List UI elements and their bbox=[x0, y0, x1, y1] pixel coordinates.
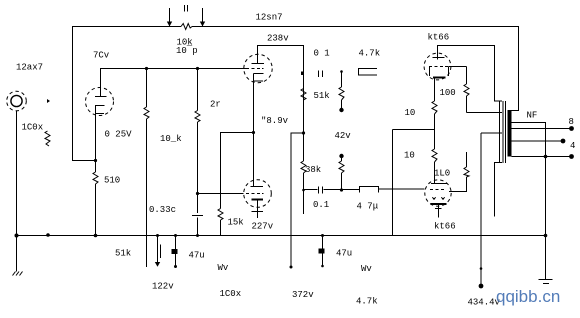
svg-text:10_k: 10_k bbox=[160, 134, 182, 144]
svg-text:227v: 227v bbox=[252, 222, 274, 232]
svg-text:47u: 47u bbox=[336, 249, 352, 259]
svg-text:10¯p: 10¯p bbox=[176, 45, 198, 56]
svg-text:NF: NF bbox=[527, 111, 538, 121]
svg-text:4.7k: 4.7k bbox=[356, 297, 378, 307]
svg-text:kt66: kt66 bbox=[428, 33, 450, 43]
svg-text:kt66: kt66 bbox=[434, 222, 456, 232]
svg-text:51k: 51k bbox=[115, 249, 131, 259]
svg-text:4 7μ: 4 7μ bbox=[357, 202, 379, 212]
svg-text:7Cv: 7Cv bbox=[93, 51, 110, 61]
svg-text:51k: 51k bbox=[314, 91, 330, 101]
svg-text:2r: 2r bbox=[210, 100, 221, 110]
svg-text:4: 4 bbox=[570, 141, 575, 151]
svg-text:1L0: 1L0 bbox=[434, 169, 450, 179]
svg-text:12ax7: 12ax7 bbox=[16, 63, 43, 73]
svg-text:1C0x: 1C0x bbox=[22, 123, 44, 133]
svg-text:0.1: 0.1 bbox=[313, 200, 329, 210]
svg-text:0 1: 0 1 bbox=[314, 49, 330, 59]
svg-text:"8.9v: "8.9v bbox=[261, 116, 289, 126]
svg-text:510: 510 bbox=[104, 176, 120, 186]
svg-text:0.33c: 0.33c bbox=[149, 205, 176, 215]
svg-text:372v: 372v bbox=[292, 290, 314, 300]
svg-text:10: 10 bbox=[405, 108, 416, 118]
svg-text:15k: 15k bbox=[228, 218, 244, 228]
svg-text:0 25V: 0 25V bbox=[105, 130, 133, 140]
svg-text:12sn7: 12sn7 bbox=[256, 13, 283, 23]
svg-text:10: 10 bbox=[404, 151, 415, 161]
svg-text:100: 100 bbox=[440, 88, 456, 98]
svg-text:38k: 38k bbox=[305, 165, 321, 175]
svg-text:47u: 47u bbox=[189, 251, 205, 261]
svg-text:42v: 42v bbox=[335, 131, 352, 141]
svg-text:122v: 122v bbox=[152, 282, 174, 292]
svg-text:qqibb.cn: qqibb.cn bbox=[496, 287, 560, 306]
svg-text:Wv: Wv bbox=[218, 263, 229, 273]
svg-text:Wv: Wv bbox=[361, 264, 372, 274]
svg-text:8: 8 bbox=[569, 117, 574, 127]
svg-text:4.7k: 4.7k bbox=[359, 49, 381, 59]
svg-text:238v: 238v bbox=[267, 34, 289, 44]
svg-text:1C0x: 1C0x bbox=[220, 289, 242, 299]
